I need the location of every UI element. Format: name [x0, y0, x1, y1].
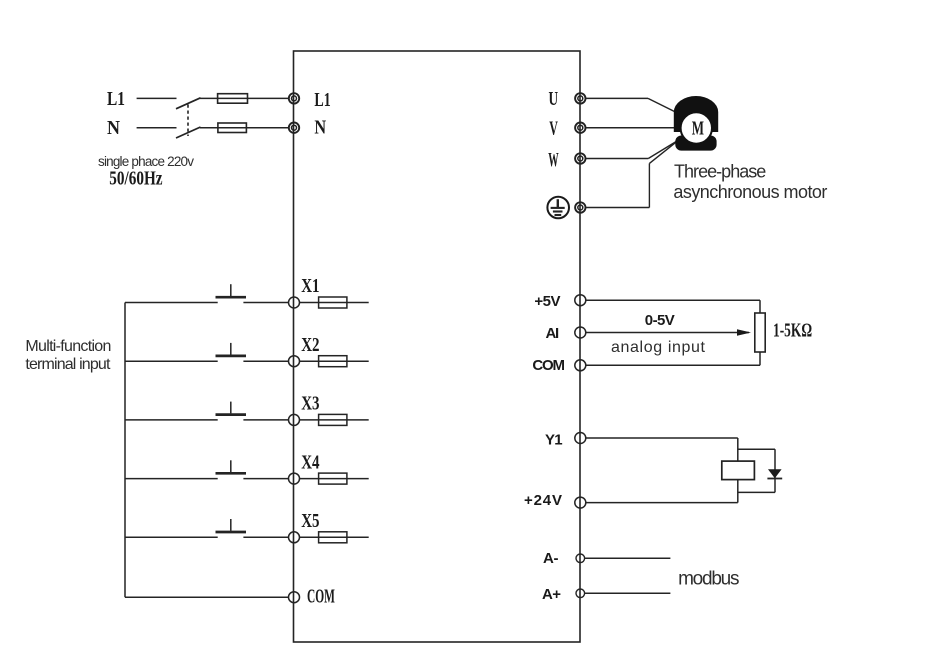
svg-text:L1: L1	[314, 89, 330, 111]
svg-text:X4: X4	[301, 450, 319, 473]
svg-text:+24V: +24V	[524, 492, 562, 509]
svg-text:COM: COM	[532, 357, 565, 374]
svg-text:50/60Hz: 50/60Hz	[109, 167, 162, 190]
svg-text:0-5V: 0-5V	[645, 312, 675, 329]
svg-text:A+: A+	[542, 586, 561, 603]
svg-text:analog input: analog input	[611, 339, 706, 356]
svg-text:N: N	[107, 117, 120, 139]
svg-text:X2: X2	[301, 333, 319, 356]
svg-text:Three-phase: Three-phase	[674, 162, 766, 182]
svg-text:terminal input: terminal input	[25, 356, 111, 373]
svg-text:X3: X3	[301, 391, 319, 414]
svg-text:A-: A-	[543, 550, 559, 567]
svg-text:L1: L1	[107, 87, 125, 109]
svg-text:Y1: Y1	[545, 432, 563, 449]
svg-text:X1: X1	[301, 274, 319, 297]
svg-text:X5: X5	[301, 509, 319, 532]
svg-text:M: M	[692, 117, 704, 140]
svg-text:1-5KΩ: 1-5KΩ	[773, 319, 812, 341]
svg-text:asynchronous motor: asynchronous motor	[673, 182, 827, 202]
svg-text:N: N	[314, 116, 326, 138]
svg-text:V: V	[549, 116, 558, 139]
svg-text:+5V: +5V	[534, 293, 560, 310]
svg-text:AI: AI	[546, 325, 560, 342]
svg-text:modbus: modbus	[678, 569, 739, 590]
svg-text:U: U	[549, 88, 559, 110]
svg-text:COM: COM	[307, 584, 335, 607]
svg-text:W: W	[548, 150, 558, 171]
svg-text:Multi-function: Multi-function	[25, 338, 111, 355]
